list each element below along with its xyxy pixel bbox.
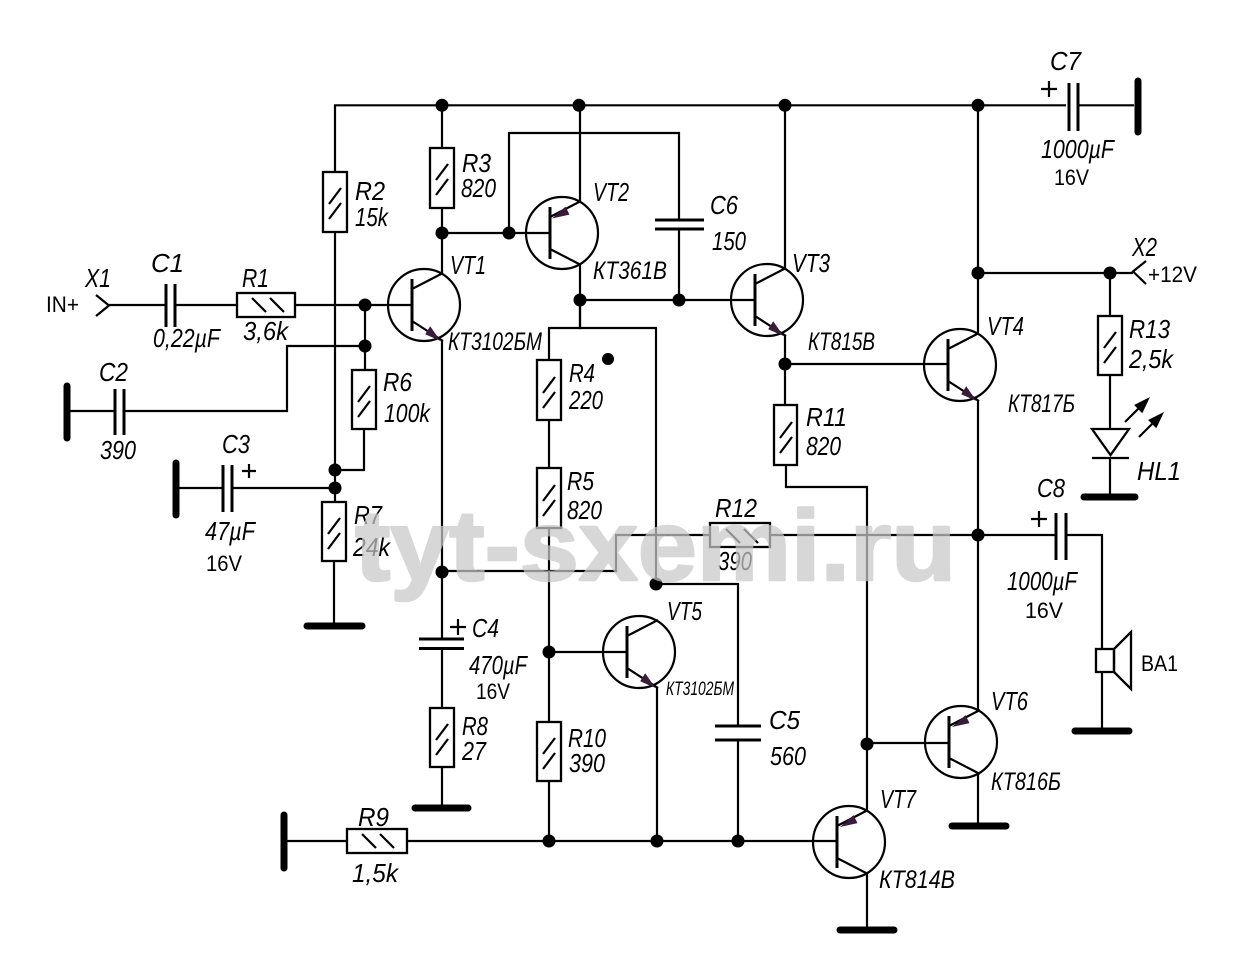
svg-text:2,5k: 2,5k: [1128, 344, 1175, 374]
wire VT1 emitter down: [441, 340, 443, 572]
wire VT2 emitter up: [579, 105, 581, 202]
svg-text:BA1: BA1: [1141, 651, 1178, 676]
resistor R4: [537, 358, 603, 420]
svg-text:КТ361В: КТ361В: [593, 257, 667, 285]
svg-text:150: 150: [712, 226, 746, 256]
svg-text:470µF: 470µF: [469, 650, 529, 680]
wire to X2: [978, 272, 1133, 274]
capacitor C8: [1007, 473, 1079, 623]
svg-text:390: 390: [100, 435, 136, 465]
svg-text:16V: 16V: [206, 551, 242, 576]
capacitor C5: [715, 705, 806, 771]
resistor R13: [1098, 273, 1175, 375]
svg-text:R11: R11: [806, 402, 847, 432]
svg-text:X2: X2: [1131, 232, 1157, 262]
svg-text:R4: R4: [569, 358, 595, 388]
svg-text:C1: C1: [151, 248, 184, 278]
wire C6 down: [678, 229, 680, 300]
svg-text:VT4: VT4: [987, 311, 1024, 341]
svg-text:1000µF: 1000µF: [1007, 566, 1079, 596]
svg-text:220: 220: [568, 385, 603, 415]
stray node dot: [602, 353, 614, 365]
node bus R10: [543, 835, 556, 848]
svg-text:КТ816Б: КТ816Б: [991, 768, 1061, 796]
svg-text:R13: R13: [1129, 314, 1170, 344]
wire R6 bottom dogleg: [335, 429, 364, 470]
resistor R3: [430, 105, 496, 233]
ground C7: [1135, 81, 1142, 132]
svg-text:C4: C4: [472, 613, 499, 643]
wire node to R12 dogleg: [442, 535, 710, 571]
wire R4 to R5: [548, 420, 550, 468]
transistor VT2: [526, 177, 667, 285]
capacitor C6: [655, 190, 746, 256]
svg-text:390: 390: [569, 748, 605, 778]
ground R9: [281, 815, 288, 868]
svg-text:VT2: VT2: [593, 177, 629, 207]
wire VT4 emitter down: [977, 400, 979, 535]
connector X1: [46, 263, 111, 317]
wire C3 to node: [233, 487, 335, 489]
svg-text:HL1: HL1: [1137, 456, 1181, 486]
capacitor C7: [1041, 46, 1116, 190]
node VT6 base: [861, 738, 874, 751]
wire R3 node to VT2 base: [442, 232, 550, 234]
wire VT6 emitter up: [977, 535, 979, 711]
transistor VT1: [388, 250, 542, 356]
svg-text:+12V: +12V: [1148, 262, 1197, 287]
node C6 bottom: [673, 294, 686, 307]
wire VT7 emitter up: [866, 744, 868, 811]
wire R11 dogleg down: [786, 465, 867, 744]
svg-text:560: 560: [770, 741, 806, 771]
bottom bus wire: [407, 840, 837, 842]
wire C2 to base node: [125, 346, 365, 411]
svg-text:VT1: VT1: [450, 250, 486, 280]
svg-text:VT7: VT7: [880, 784, 917, 814]
svg-text:C3: C3: [222, 429, 250, 459]
node output: [972, 529, 985, 542]
svg-text:0,22µF: 0,22µF: [153, 323, 222, 353]
wire R2 down to node: [334, 232, 336, 470]
capacitor C3: [205, 429, 257, 576]
node X2 branch: [972, 267, 985, 280]
ground C2: [64, 386, 71, 438]
transistor VT4: [924, 311, 1075, 418]
ground BA1: [1075, 728, 1129, 735]
wire R1 to VT1 base: [295, 304, 412, 306]
wire R12 to output node: [770, 534, 978, 536]
node bus C5: [732, 835, 745, 848]
svg-text:C2: C2: [99, 357, 128, 387]
resistor R6: [352, 367, 432, 429]
resistor R7: [322, 500, 392, 562]
transistor VT7: [813, 784, 955, 894]
transistor VT6: [925, 686, 1061, 796]
wire VT5 emitter down: [656, 687, 658, 841]
wire C5 to bus: [737, 740, 739, 841]
wire R5 down to VT5 base node: [548, 528, 550, 722]
wire C7 to ground: [1079, 104, 1134, 106]
svg-text:R9: R9: [358, 802, 389, 832]
svg-text:IN+: IN+: [46, 292, 79, 317]
wire VT2 collector down: [579, 264, 581, 300]
wire ground to R9: [284, 840, 347, 842]
node VT2 collector: [574, 294, 587, 307]
svg-text:15k: 15k: [355, 202, 390, 232]
wire VT6 base: [867, 742, 949, 744]
svg-text:3,6k: 3,6k: [243, 316, 290, 346]
svg-text:C6: C6: [710, 190, 738, 220]
svg-text:820: 820: [806, 431, 841, 461]
svg-text:VT6: VT6: [991, 686, 1028, 716]
svg-text:КТ814В: КТ814В: [879, 866, 955, 894]
resistor R12: [710, 493, 770, 576]
node VT5 collector: [650, 578, 663, 591]
svg-text:R1: R1: [242, 263, 269, 293]
wire speaker to ground: [1101, 672, 1103, 731]
wire base node to R6: [364, 305, 366, 370]
wire VT2 base node up to C6: [509, 133, 679, 233]
wire ground to C2: [67, 410, 114, 412]
svg-text:820: 820: [461, 173, 496, 203]
svg-text:C5: C5: [769, 705, 800, 735]
wire VT5 base: [549, 651, 627, 653]
watermark: [355, 490, 956, 602]
node bus X2: [972, 99, 985, 112]
wire R8 to ground: [441, 767, 443, 807]
node bus VT2: [573, 99, 586, 112]
resistor R1: [237, 263, 295, 346]
resistor R11: [774, 402, 847, 465]
node R13 top: [1104, 267, 1117, 280]
wire VT3 emitter down: [784, 335, 786, 405]
capacitor C4: [419, 572, 529, 704]
resistor R8: [430, 648, 488, 767]
node bus R3: [436, 99, 449, 112]
wire R7 to ground: [333, 561, 335, 626]
svg-text:16V: 16V: [1025, 598, 1063, 623]
ground VT6: [952, 823, 1006, 830]
speaker BA1: [1096, 632, 1178, 689]
ground VT7: [840, 927, 894, 934]
svg-text:100k: 100k: [384, 398, 432, 428]
node bus VT5: [651, 835, 664, 848]
svg-text:27: 27: [461, 736, 487, 766]
resistor R9: [347, 802, 407, 888]
wire VT6 collector to ground: [977, 773, 979, 826]
node R3 collector VT1: [436, 227, 449, 240]
wire VT3 collector up: [784, 105, 786, 269]
resistor R10: [537, 722, 606, 781]
wire node to C8: [978, 534, 1055, 536]
svg-text:VT3: VT3: [792, 248, 830, 278]
wire C8 to speaker: [1067, 535, 1102, 649]
wire VT5 collector node to C5: [656, 584, 738, 726]
svg-text:1000µF: 1000µF: [1041, 134, 1116, 164]
node base VT1: [359, 299, 372, 312]
svg-text:R6: R6: [383, 367, 412, 397]
wire VT4 collector up: [977, 105, 979, 334]
wire node down to VT5: [580, 300, 656, 584]
ground C3: [173, 463, 180, 515]
svg-text:КТ817Б: КТ817Б: [1008, 390, 1075, 418]
top +12V bus: [334, 104, 1066, 106]
node C3: [329, 482, 342, 495]
svg-text:1,5k: 1,5k: [352, 858, 400, 888]
wire node to VT4 base: [785, 363, 948, 365]
capacitor C2: [99, 357, 136, 465]
svg-text:16V: 16V: [1054, 165, 1089, 190]
transistor VT5: [603, 596, 734, 700]
resistor R2: [323, 105, 390, 232]
svg-text:tyt-sxemi.ru: tyt-sxemi.ru: [355, 490, 956, 602]
wire ground to C3: [176, 487, 222, 489]
svg-text:КТ3102БМ: КТ3102БМ: [448, 328, 542, 356]
svg-text:C8: C8: [1037, 473, 1065, 503]
node VT3 emitter: [779, 358, 792, 371]
node VT5 base: [543, 646, 556, 659]
wire R10 to bus: [548, 781, 550, 841]
capacitor C1: [151, 248, 222, 353]
wire X1 to C1: [109, 304, 165, 306]
connector X2: [1131, 232, 1197, 287]
node R2 R6: [329, 464, 342, 477]
svg-text:X1: X1: [84, 263, 111, 293]
node bus VT3: [779, 99, 792, 112]
wire node to node C3: [334, 470, 336, 502]
resistor R5: [537, 466, 602, 528]
wire VT7 collector to ground: [866, 873, 868, 927]
svg-text:47µF: 47µF: [205, 516, 257, 546]
node VT2 base: [503, 227, 516, 240]
svg-text:КТ3102БМ: КТ3102БМ: [666, 679, 734, 700]
ground R8: [415, 805, 468, 812]
svg-text:КТ815В: КТ815В: [808, 328, 875, 356]
svg-text:C7: C7: [1050, 46, 1082, 76]
svg-text:16V: 16V: [476, 679, 510, 704]
ground R7: [307, 623, 362, 630]
wire VT1 collector: [441, 233, 443, 274]
wire collector node to VT3 base: [580, 299, 755, 301]
LED HL1: [1092, 375, 1181, 494]
transistor VT3: [731, 248, 875, 356]
wire node to R4: [549, 300, 580, 360]
wire C1 to R1: [176, 304, 237, 306]
ground HL1: [1084, 494, 1135, 501]
node R6 top: [359, 340, 372, 353]
node C4 top: [436, 566, 449, 579]
